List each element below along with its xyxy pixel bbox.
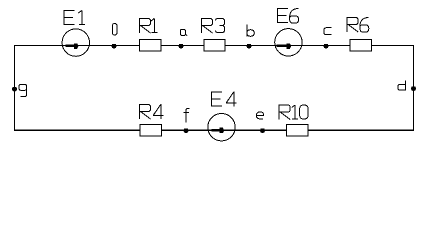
source E6 circle	[275, 29, 302, 56]
node a dot	[179, 44, 184, 49]
label R1	[140, 18, 158, 33]
resistor R10	[287, 125, 309, 136]
label R4	[140, 104, 164, 119]
label E4	[211, 92, 236, 107]
node 0 dot	[112, 44, 117, 49]
source E1 arrow	[66, 43, 79, 49]
node c dot	[324, 44, 329, 49]
label node f	[184, 109, 190, 123]
source E1 circle	[62, 29, 89, 56]
node b dot	[247, 44, 252, 49]
resistor R1	[140, 40, 161, 51]
label node b	[247, 24, 254, 36]
node d dot	[411, 87, 416, 92]
source E4 circle	[208, 114, 235, 141]
node g dot	[12, 87, 17, 92]
wire left	[13, 46, 15, 131]
label E1	[63, 10, 85, 25]
label R10	[279, 105, 308, 120]
source E6 arrow	[276, 43, 291, 49]
node f dot	[184, 129, 189, 134]
label node 0	[112, 24, 117, 36]
label E6	[277, 8, 299, 23]
label node a	[180, 30, 187, 37]
resistor R3	[204, 40, 225, 51]
wire right	[412, 46, 414, 131]
source E4 arrow	[211, 128, 224, 134]
resistor R4	[140, 125, 162, 136]
node e dot	[260, 129, 265, 134]
label R6	[347, 17, 369, 32]
wire bottom	[14, 129, 414, 131]
label node c	[324, 28, 331, 35]
label R3	[202, 18, 225, 33]
label node d	[398, 81, 406, 91]
label node g	[19, 84, 27, 96]
label node e	[257, 112, 264, 119]
resistor R6	[350, 40, 372, 51]
wire top	[14, 45, 414, 47]
